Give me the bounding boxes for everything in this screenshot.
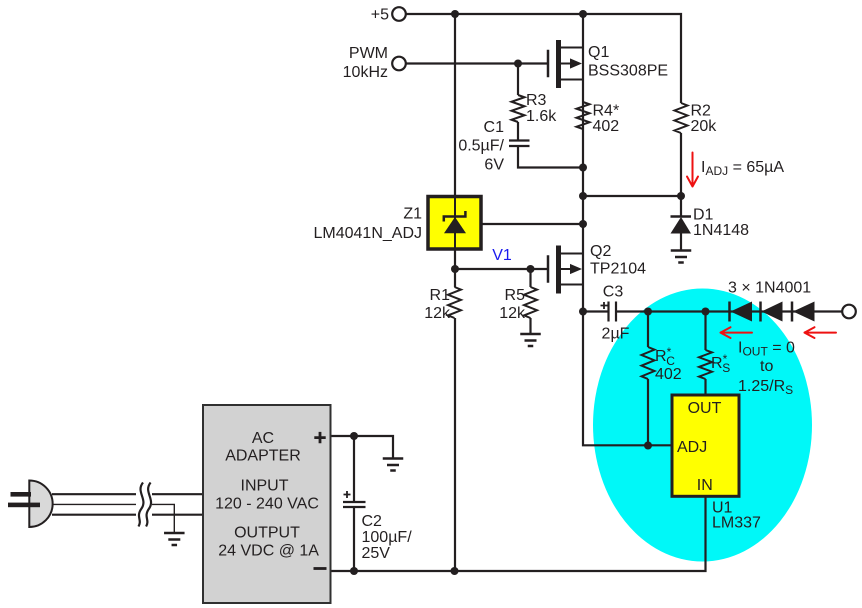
resistor R1 12k — [448, 287, 461, 318]
red arrow Iout (left, outer) — [805, 327, 837, 338]
ground (D1 anode) — [671, 251, 692, 263]
junction: C1 / R4 bottom — [579, 164, 587, 172]
label adapter minus pin — [314, 567, 327, 570]
wire: Rc top stub — [647, 312, 649, 348]
wire: R5 bottom to ground — [529, 318, 531, 334]
wire: C2 bottom stem to minus rail — [353, 507, 355, 571]
wire: V1 node to Q2 gate — [455, 268, 547, 270]
svg-text:0.5µF/: 0.5µF/ — [458, 138, 504, 155]
cyan highlight ellipse around LM337 regulator — [593, 289, 812, 562]
svg-text:TP2104: TP2104 — [590, 261, 646, 278]
junction: bottom rail / C2 — [350, 567, 358, 575]
wire: U1 IN pin down and bottom rail to adapter minus — [331, 497, 706, 572]
terminal output — [842, 305, 856, 319]
junction: Q2 drain / C3 / ADJ branch — [579, 308, 587, 316]
svg-text:R1: R1 — [430, 287, 451, 304]
svg-text:OUTPUT: OUTPUT — [234, 524, 300, 541]
svg-text:to: to — [760, 358, 773, 375]
svg-text:25V: 25V — [362, 545, 391, 562]
wire: R2 bottom to D1 cathode — [680, 133, 682, 217]
svg-text:12k: 12k — [424, 305, 451, 322]
cable break squiggle 2 — [146, 483, 151, 527]
wire: Z1 cathode-side to x583 node — [481, 223, 583, 225]
wire: main left vertical (+5 rail down to bottom rail) — [454, 14, 456, 571]
label adapter plus pin — [314, 432, 325, 443]
junction: +5 rail / Q1 drain — [579, 10, 587, 18]
resistor Rc* 402 — [642, 347, 655, 379]
capacitor C1 plates — [509, 141, 530, 147]
diode D1 anode triangle — [671, 217, 692, 234]
junction: ADJ wire / Rc bottom — [644, 442, 652, 450]
svg-text:OUT: OUT — [688, 400, 722, 417]
svg-text:R3: R3 — [526, 92, 547, 109]
junction: R4 node to R2 link (left) — [579, 192, 587, 200]
diode DO2 (1N4001 #2) — [759, 302, 762, 322]
wire: vertical x583 (Q1 drain/source chain down to C3 node) — [582, 14, 584, 312]
svg-text:C2: C2 — [362, 513, 383, 530]
U1 LM337 yellow box — [672, 395, 739, 496]
wire: R3 top stub from PWM wire — [517, 64, 519, 96]
svg-text:IN: IN — [697, 477, 713, 494]
svg-text:AC: AC — [252, 430, 274, 447]
red arrow Iout (left, inner) — [721, 327, 753, 338]
diode D1 1N4148 cathode bar — [671, 215, 692, 218]
wire: R4 bottom node to R2/D1 node — [583, 195, 681, 197]
junction: output rail / Rs — [702, 308, 710, 316]
wire: plug line 2 (earth) to ground drop — [52, 504, 174, 533]
svg-text:+5: +5 — [371, 7, 389, 24]
svg-text:100µF/: 100µF/ — [362, 529, 413, 546]
svg-text:24 VDC @ 1A: 24 VDC @ 1A — [218, 543, 319, 560]
mains plug prong 1 — [11, 492, 32, 497]
svg-text:3 × 1N4001: 3 × 1N4001 — [728, 280, 811, 297]
diode DO3 (1N4001 #3) — [791, 302, 794, 322]
resistor R4* 402 — [577, 102, 590, 129]
svg-text:1.25/RS: 1.25/RS — [738, 378, 793, 397]
svg-text:1.6k: 1.6k — [526, 108, 557, 125]
wire: Rs bottom to U1 OUT pin — [704, 379, 706, 395]
resistor Rs* — [699, 350, 712, 379]
wire: C2 top stem — [353, 436, 355, 502]
zener Z1 anode triangle — [444, 217, 466, 233]
junction: output rail / Rc — [644, 308, 652, 316]
ground (R5 bottom) — [520, 334, 541, 346]
svg-text:R2: R2 — [691, 103, 712, 120]
mains plug body — [29, 480, 52, 527]
svg-text:402: 402 — [593, 118, 620, 135]
svg-text:6V: 6V — [484, 157, 504, 174]
zener Z1 cathode bar — [444, 211, 466, 222]
zener Z1 wire through box — [454, 196, 456, 251]
svg-text:V1: V1 — [492, 247, 512, 264]
svg-text:IADJ = 65µA: IADJ = 65µA — [701, 159, 784, 178]
wire: C1 bottom plate to node at x583 — [518, 146, 583, 168]
red arrow Iadj (down) — [687, 153, 698, 187]
terminal PWM — [392, 57, 406, 71]
svg-text:PWM: PWM — [349, 45, 388, 62]
svg-text:ADAPTER: ADAPTER — [225, 448, 301, 465]
svg-text:Z1: Z1 — [403, 206, 422, 223]
svg-text:LM4041N_ADJ: LM4041N_ADJ — [314, 225, 423, 242]
diode DO1 (1N4001 #1) — [728, 302, 731, 322]
svg-text:402: 402 — [655, 366, 682, 383]
AC adapter gray box — [203, 405, 331, 603]
capacitor C2 plates — [343, 502, 366, 507]
svg-text:Q2: Q2 — [590, 243, 611, 260]
wire: D1 anode to ground — [680, 234, 682, 251]
ground (chassis near C2) — [383, 459, 404, 471]
junction: node V1 / R5 — [527, 265, 535, 273]
capacitor C3 plates — [609, 302, 617, 322]
svg-text:ADJ: ADJ — [677, 439, 707, 456]
svg-text:D1: D1 — [693, 207, 714, 224]
resistor R5 12k — [524, 287, 537, 318]
svg-text:C1: C1 — [484, 119, 505, 136]
svg-text:12k: 12k — [499, 305, 526, 322]
svg-text:C3: C3 — [603, 284, 624, 301]
terminal +5 — [392, 7, 406, 21]
transistor Q1 BSS308PE (P-MOSFET) — [548, 40, 583, 88]
wire: C3 right plate to output terminal through diodes — [616, 310, 842, 312]
svg-text:LM337: LM337 — [712, 515, 761, 532]
wire: Rc bottom to ADJ wire — [647, 379, 649, 446]
junction: node V1 / R1 — [451, 265, 459, 273]
mains plug prong 2 — [8, 503, 40, 508]
wire: R5 top stub — [529, 269, 531, 287]
svg-text:2µF: 2µF — [602, 326, 630, 343]
svg-text:120 - 240 VAC: 120 - 240 VAC — [215, 495, 319, 512]
junction: Z1 wire / x583 vertical — [579, 220, 587, 228]
cable break squiggle 1 — [139, 483, 144, 527]
wire: Q2 drain node to C3 left plate — [583, 310, 609, 312]
svg-text:20k: 20k — [691, 118, 718, 135]
wire: PWM input to Q1 gate — [406, 62, 547, 64]
junction: adapter plus / C2 — [350, 432, 358, 440]
svg-text:R5: R5 — [505, 287, 526, 304]
transistor Q2 TP2104 (P-MOSFET) — [548, 246, 583, 294]
resistor R3 1.6k — [512, 95, 525, 122]
wire: plug line 1 (hot) to adapter — [52, 493, 203, 495]
wire: R3 bottom to C1 top plate — [517, 122, 519, 141]
cable break mask — [136, 479, 152, 529]
junction: PWM wire / R3 — [514, 60, 522, 68]
wire: plug line 3 (neutral) to adapter — [52, 514, 203, 516]
ground (mains earth) — [164, 533, 185, 545]
wire: Rs top stub — [704, 312, 706, 351]
svg-text:1N4148: 1N4148 — [693, 222, 749, 239]
wire: adapter plus pin to C2 and chassis ground — [331, 436, 394, 459]
svg-text:R4*: R4* — [593, 103, 620, 120]
capacitor C3 plus polarity mark — [601, 302, 608, 309]
svg-text:10kHz: 10kHz — [343, 64, 388, 81]
capacitor C2 plus polarity mark — [344, 491, 351, 498]
resistor R2 20k — [675, 103, 688, 133]
svg-text:INPUT: INPUT — [241, 477, 289, 494]
junction: R2 bottom / D1 — [677, 192, 685, 200]
svg-text:BSS308PE: BSS308PE — [588, 63, 668, 80]
wire: ADJ pin left then up to C3 node — [583, 312, 671, 446]
zener Z1 LM4041N_ADJ yellow box — [428, 197, 481, 250]
junction: +5 rail / left vertical — [451, 10, 459, 18]
wire: +5 rail to R2 top corner — [406, 14, 681, 103]
svg-text:Q1: Q1 — [588, 44, 609, 61]
junction: bottom rail / left vertical — [451, 567, 459, 575]
